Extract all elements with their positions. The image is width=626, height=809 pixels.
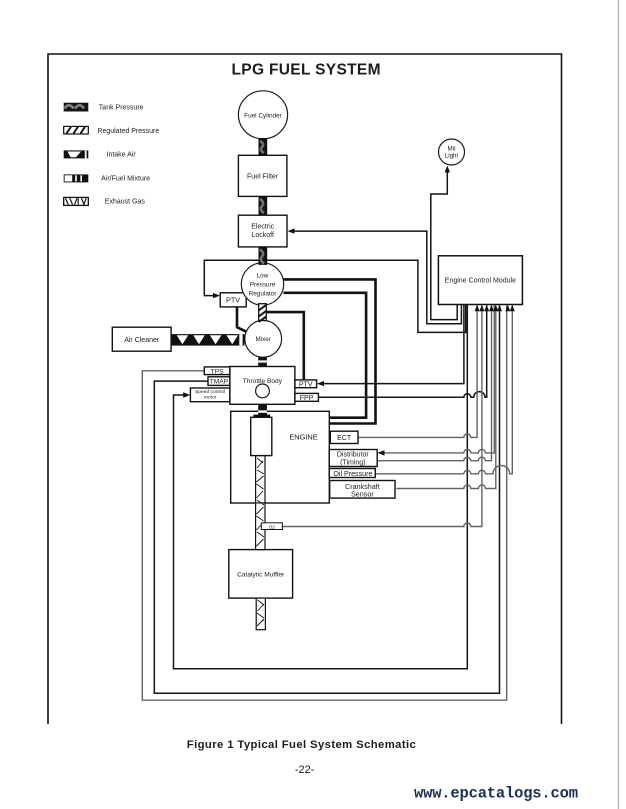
svg-text:www.epcatalogs.com: www.epcatalogs.com bbox=[414, 785, 578, 803]
svg-text:Low: Low bbox=[257, 272, 269, 279]
svg-text:Tank Pressure: Tank Pressure bbox=[99, 105, 144, 112]
svg-text:motor: motor bbox=[204, 395, 217, 401]
svg-text:Fuel Filter: Fuel Filter bbox=[247, 173, 279, 180]
svg-text:LPG FUEL SYSTEM: LPG FUEL SYSTEM bbox=[232, 62, 381, 79]
svg-text:Lockoff: Lockoff bbox=[251, 232, 273, 239]
svg-text:Sensor: Sensor bbox=[351, 490, 374, 499]
svg-text:PTV: PTV bbox=[226, 295, 240, 304]
svg-text:Engine Control Module: Engine Control Module bbox=[445, 278, 516, 285]
svg-text:(Timing): (Timing) bbox=[340, 460, 365, 467]
svg-text:Exhaust Gas: Exhaust Gas bbox=[105, 199, 146, 206]
svg-text:Air Cleaner: Air Cleaner bbox=[124, 337, 160, 344]
svg-text:Air/Fuel Mixture: Air/Fuel Mixture bbox=[101, 175, 150, 182]
svg-text:Fuel Cylinder: Fuel Cylinder bbox=[244, 112, 283, 119]
svg-text:Intake Air: Intake Air bbox=[107, 151, 137, 158]
svg-text:Electric: Electric bbox=[251, 223, 274, 230]
svg-text:Throttle Body: Throttle Body bbox=[243, 378, 283, 385]
svg-text:PTV: PTV bbox=[299, 381, 313, 388]
svg-text:ECT: ECT bbox=[337, 435, 352, 442]
svg-text:Distributor: Distributor bbox=[337, 452, 370, 459]
svg-text:FPP: FPP bbox=[300, 395, 314, 402]
svg-text:Pressure: Pressure bbox=[250, 281, 276, 288]
svg-text:Speed control: Speed control bbox=[195, 389, 225, 395]
svg-text:TPS: TPS bbox=[211, 368, 224, 375]
svg-text:Mixer: Mixer bbox=[255, 336, 270, 343]
svg-text:TMAP: TMAP bbox=[210, 378, 229, 385]
svg-text:O2: O2 bbox=[269, 524, 276, 529]
svg-text:Figure 1 Typical Fuel System S: Figure 1 Typical Fuel System Schematic bbox=[187, 739, 416, 751]
svg-text:Mil: Mil bbox=[448, 145, 456, 152]
svg-text:Regulator: Regulator bbox=[249, 290, 278, 297]
svg-text:Regulated Pressure: Regulated Pressure bbox=[97, 128, 159, 135]
svg-text:ENGINE: ENGINE bbox=[289, 432, 317, 441]
svg-text:-22-: -22- bbox=[295, 764, 315, 776]
svg-text:Oil Pressure: Oil Pressure bbox=[333, 470, 372, 478]
svg-text:Light: Light bbox=[445, 153, 459, 160]
svg-text:Catalytic Muffler: Catalytic Muffler bbox=[237, 571, 285, 578]
